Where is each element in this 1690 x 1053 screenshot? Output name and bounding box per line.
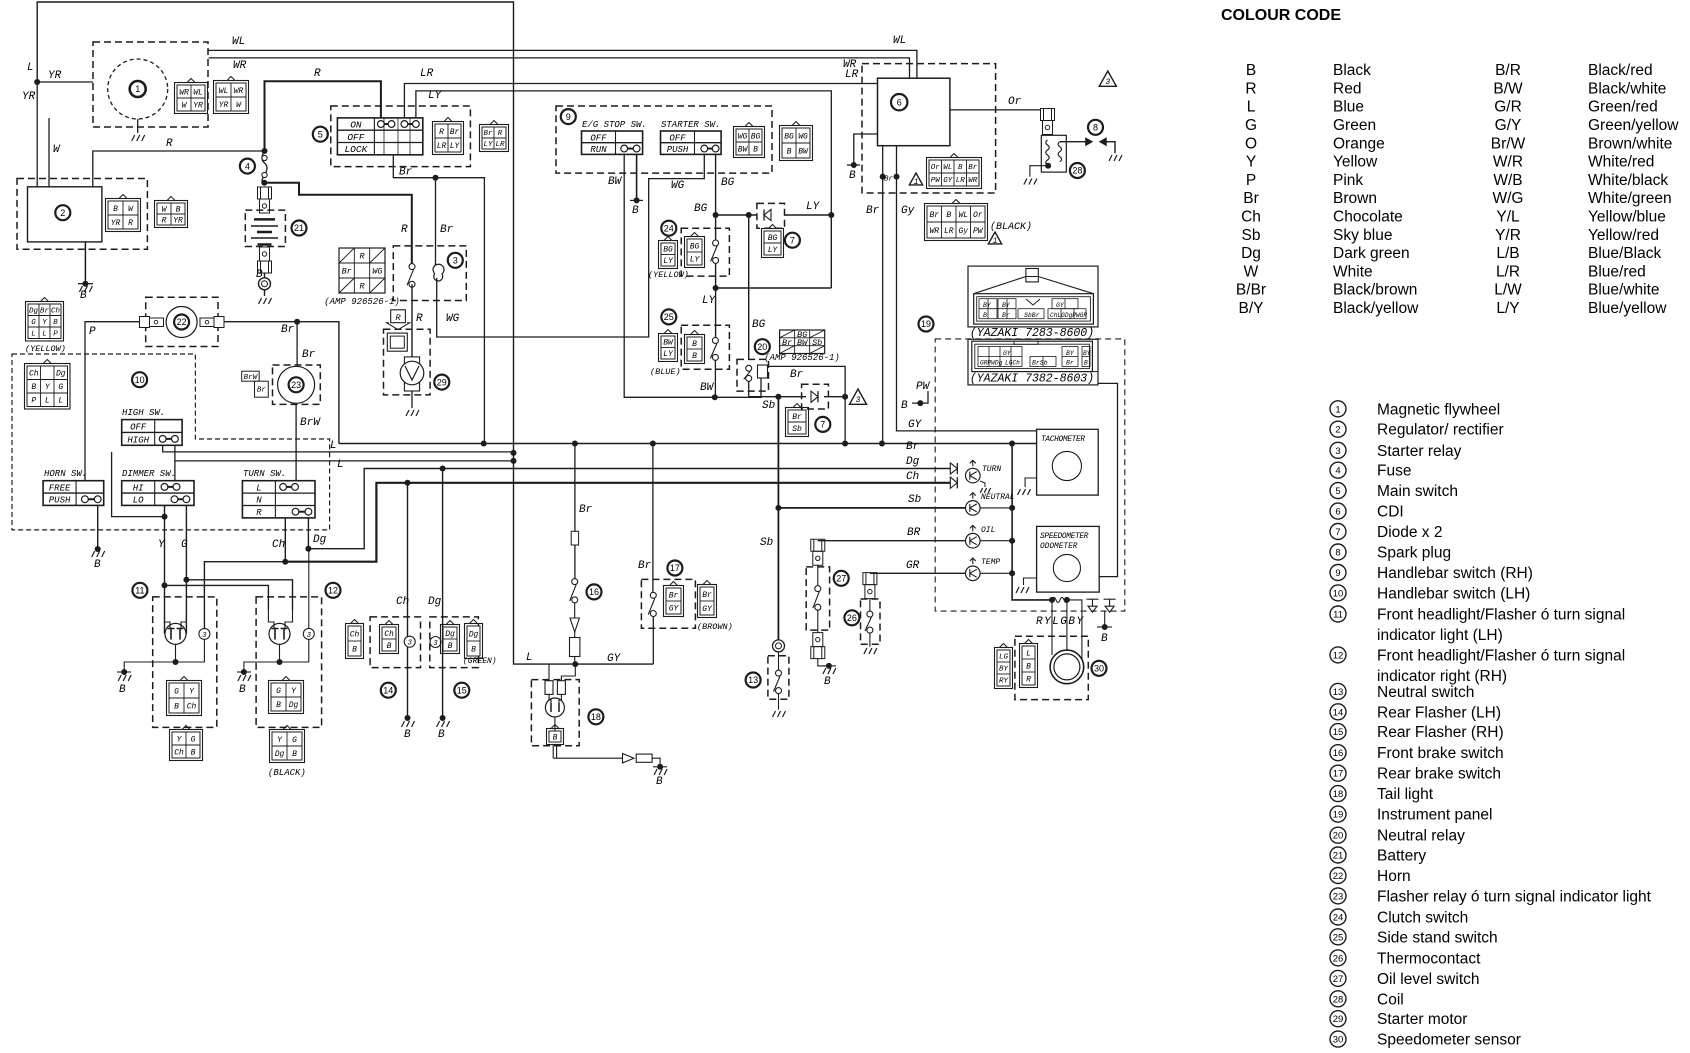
svg-text:Front brake switch: Front brake switch xyxy=(1377,745,1504,762)
svg-text:G: G xyxy=(174,687,179,696)
svg-text:L: L xyxy=(1247,99,1256,116)
svg-text:29: 29 xyxy=(437,377,447,387)
battery 21 xyxy=(258,187,272,199)
svg-text:Green: Green xyxy=(1333,117,1376,134)
rear flasher RH connector Dg/B inner xyxy=(441,625,460,654)
svg-text:R: R xyxy=(401,224,408,236)
svg-text:B: B xyxy=(31,383,36,392)
instrument panel 19 dashed box xyxy=(935,339,1125,611)
svg-text:L/Y: L/Y xyxy=(1496,300,1519,317)
svg-text:B: B xyxy=(239,684,246,696)
svg-text:B: B xyxy=(1246,62,1256,79)
svg-text:(YAZAKI 7382-8603): (YAZAKI 7382-8603) xyxy=(970,373,1094,386)
sensor outer connector LG/BY/RY xyxy=(995,648,1013,689)
svg-text:GY: GY xyxy=(908,419,923,431)
svg-text:Neutral switch: Neutral switch xyxy=(1377,684,1474,701)
svg-text:3: 3 xyxy=(433,640,437,648)
svg-text:Ch: Ch xyxy=(51,307,61,315)
ignition coil 28 xyxy=(1041,109,1055,121)
svg-text:Main switch: Main switch xyxy=(1377,483,1458,500)
svg-text:Speedometer sensor: Speedometer sensor xyxy=(1377,1032,1521,1049)
svg-text:Battery: Battery xyxy=(1377,848,1426,865)
svg-text:L: L xyxy=(330,440,337,452)
svg-text:DIMMER SW.: DIMMER SW. xyxy=(122,469,176,479)
svg-text:10: 10 xyxy=(1333,588,1344,599)
svg-text:Ch: Ch xyxy=(187,702,197,711)
small BrW step connector at flasher relay xyxy=(242,371,260,381)
svg-text:3: 3 xyxy=(408,640,412,648)
svg-text:17: 17 xyxy=(670,563,680,573)
svg-text:2: 2 xyxy=(1335,425,1340,436)
headlight LH bulb feed wires xyxy=(165,617,171,628)
spark plug 8 xyxy=(1060,141,1089,143)
handlebar RH connector WG BG / BW B xyxy=(734,127,765,158)
svg-text:L: L xyxy=(526,652,533,664)
svg-text:CDI: CDI xyxy=(1377,504,1404,521)
rear flasher LH 14 xyxy=(370,617,420,668)
svg-text:5: 5 xyxy=(1335,486,1340,497)
svg-text:10: 10 xyxy=(135,375,145,385)
wire WG starter switch to starter relay coil xyxy=(437,154,705,337)
side stand connector BW/LY xyxy=(659,334,678,362)
main switch connector Br R / LY LR xyxy=(480,125,509,152)
fuse 4 xyxy=(262,151,267,182)
svg-text:17: 17 xyxy=(1333,769,1344,780)
svg-text:Dg: Dg xyxy=(275,750,285,759)
svg-text:WR: WR xyxy=(929,227,939,236)
tachometer ground xyxy=(1025,478,1037,487)
svg-text:11: 11 xyxy=(135,586,144,596)
svg-text:WG: WG xyxy=(798,132,808,141)
CDI 8-pin connector xyxy=(927,158,982,189)
svg-text:B: B xyxy=(352,645,357,654)
svg-text:Rear Flasher (RH): Rear Flasher (RH) xyxy=(1377,724,1504,741)
svg-text:G: G xyxy=(31,319,36,327)
flywheel ground xyxy=(137,119,139,133)
svg-text:BG: BG xyxy=(751,132,761,141)
handlebar LH connector 3x3 xyxy=(25,364,71,410)
svg-text:WG: WG xyxy=(446,313,460,325)
svg-text:LR: LR xyxy=(495,141,505,149)
svg-text:Rear Flasher (LH): Rear Flasher (LH) xyxy=(1377,704,1501,721)
svg-text:BG: BG xyxy=(721,177,735,189)
svg-text:Clutch switch: Clutch switch xyxy=(1377,910,1468,927)
svg-text:GY: GY xyxy=(943,177,953,185)
svg-text:Br: Br xyxy=(302,349,316,361)
svg-text:Coil: Coil xyxy=(1377,991,1404,1008)
svg-text:Dg: Dg xyxy=(56,370,66,379)
svg-text:LY: LY xyxy=(483,141,493,149)
svg-text:W/G: W/G xyxy=(1493,190,1524,207)
svg-text:BG: BG xyxy=(690,242,700,251)
wire Ch branch to rear flasher LH xyxy=(407,483,409,718)
neutral relay 20 xyxy=(737,359,769,391)
rear flasher LH connector Ch/B outer xyxy=(346,624,364,659)
svg-text:B: B xyxy=(632,205,639,217)
svg-text:Neutral relay: Neutral relay xyxy=(1377,828,1465,845)
svg-text:Br: Br xyxy=(702,591,712,600)
svg-text:BrW: BrW xyxy=(244,374,259,382)
AMP 926526-1 connector near battery xyxy=(339,248,385,293)
svg-text:Ch: Ch xyxy=(174,748,184,757)
rear flasher RH connector Dg/B outer xyxy=(465,624,483,659)
svg-text:TURN SW.: TURN SW. xyxy=(243,469,286,479)
svg-text:25: 25 xyxy=(1333,932,1344,943)
svg-text:White/green: White/green xyxy=(1588,190,1672,207)
svg-text:Dg: Dg xyxy=(445,630,455,639)
svg-text:Sky blue: Sky blue xyxy=(1333,227,1392,244)
svg-text:White/red: White/red xyxy=(1588,154,1654,171)
svg-text:23: 23 xyxy=(291,380,301,390)
sensor connector L/B/R xyxy=(1020,644,1038,688)
svg-text:3: 3 xyxy=(307,632,311,640)
svg-text:PW: PW xyxy=(916,381,931,393)
svg-text:Blue/white: Blue/white xyxy=(1588,282,1660,299)
svg-text:Sb: Sb xyxy=(792,425,802,434)
svg-text:BW: BW xyxy=(797,338,808,348)
svg-text:20: 20 xyxy=(1333,831,1344,842)
svg-text:20: 20 xyxy=(757,342,767,352)
svg-text:GR: GR xyxy=(906,560,920,572)
svg-text:18: 18 xyxy=(591,712,601,722)
svg-text:BR: BR xyxy=(907,527,921,539)
svg-text:21: 21 xyxy=(1333,851,1344,862)
svg-text:8: 8 xyxy=(1335,548,1340,559)
svg-text:G/R: G/R xyxy=(1494,99,1522,116)
svg-text:WL: WL xyxy=(193,88,203,97)
yellow connector 3x3 top left xyxy=(26,302,64,342)
svg-text:9: 9 xyxy=(1335,568,1340,579)
svg-text:15: 15 xyxy=(1333,727,1344,738)
svg-text:BG: BG xyxy=(694,203,708,215)
svg-text:BW: BW xyxy=(798,147,809,156)
svg-text:Dg: Dg xyxy=(313,534,327,546)
svg-text:6: 6 xyxy=(897,97,902,107)
svg-text:WL: WL xyxy=(943,164,952,172)
svg-text:BG: BG xyxy=(752,319,766,331)
svg-text:B/R: B/R xyxy=(1495,62,1521,79)
svg-text:R: R xyxy=(128,219,133,228)
svg-text:PUSH: PUSH xyxy=(49,496,71,506)
svg-text:Oil level switch: Oil level switch xyxy=(1377,971,1480,988)
regulator connector B W / YR R xyxy=(106,199,141,232)
svg-text:Starter relay: Starter relay xyxy=(1377,443,1462,460)
svg-text:Spark plug: Spark plug xyxy=(1377,545,1451,562)
Br bus horizontal xyxy=(339,443,1037,445)
svg-text:R: R xyxy=(498,130,503,138)
svg-text:B: B xyxy=(983,312,987,319)
wire Br main switch to Br bus xyxy=(393,156,484,444)
battery ground wire xyxy=(264,273,266,296)
svg-text:RY: RY xyxy=(999,678,1009,686)
svg-text:Or: Or xyxy=(931,164,941,172)
svg-text:B: B xyxy=(80,290,87,302)
svg-text:L: L xyxy=(1026,649,1031,658)
svg-text:Black/red: Black/red xyxy=(1588,62,1653,79)
warning triangle 3 at diode 2 xyxy=(849,389,866,404)
svg-text:6: 6 xyxy=(1335,507,1340,518)
handlebar switch LH 10 xyxy=(12,354,330,530)
svg-text:24: 24 xyxy=(664,223,674,233)
svg-text:(BLACK): (BLACK) xyxy=(268,768,306,778)
svg-text:9: 9 xyxy=(566,112,571,122)
svg-text:Ch: Ch xyxy=(272,539,285,551)
svg-text:R: R xyxy=(439,128,444,137)
svg-text:14: 14 xyxy=(383,685,393,695)
svg-text:E/G STOP SW.: E/G STOP SW. xyxy=(582,120,647,130)
svg-text:14: 14 xyxy=(1333,707,1344,718)
svg-text:B: B xyxy=(191,748,196,757)
svg-text:G: G xyxy=(58,383,63,392)
svg-text:27: 27 xyxy=(836,574,846,584)
svg-text:Dg: Dg xyxy=(428,596,442,608)
svg-text:indicator right (RH): indicator right (RH) xyxy=(1377,668,1507,685)
wire BG to neutral relay xyxy=(716,214,757,216)
svg-text:12: 12 xyxy=(1333,650,1344,661)
svg-text:Br: Br xyxy=(884,176,894,184)
svg-text:B: B xyxy=(119,684,126,696)
svg-text:Dg: Dg xyxy=(1241,245,1261,262)
svg-text:26: 26 xyxy=(847,613,857,623)
Sb line to neutral indicator xyxy=(778,507,965,509)
svg-text:Y/R: Y/R xyxy=(1495,227,1521,244)
svg-text:L/B: L/B xyxy=(1496,245,1519,262)
wire Sb neutral relay to diode 2 and neutral switch xyxy=(749,381,779,396)
svg-text:Thermocontact: Thermocontact xyxy=(1377,950,1481,967)
wire W flywheel to regulator xyxy=(48,118,50,187)
wire YR junction down to regulator xyxy=(36,82,38,187)
diode D1 (BG-LY) xyxy=(757,203,785,228)
svg-text:G: G xyxy=(292,736,297,745)
headlight RH lower connector Y G / Dg B xyxy=(270,730,305,763)
svg-text:16: 16 xyxy=(589,587,599,597)
svg-text:Black/brown: Black/brown xyxy=(1333,282,1417,299)
svg-text:7: 7 xyxy=(1335,527,1340,538)
svg-text:WL: WL xyxy=(232,36,245,48)
diode D2 (Sb-Br) xyxy=(802,384,829,409)
svg-text:HI: HI xyxy=(133,483,144,493)
svg-text:B: B xyxy=(471,645,476,654)
svg-text:13: 13 xyxy=(1333,687,1344,698)
svg-text:Y: Y xyxy=(1246,154,1256,171)
svg-text:Br: Br xyxy=(450,128,460,137)
sensor wires R Y L G B Y xyxy=(1051,600,1053,655)
wire GR thermocontact to indicator xyxy=(870,572,966,574)
sensor coil squiggle xyxy=(1052,597,1067,602)
regulator rectifier unit 2 xyxy=(17,179,147,250)
svg-text:PW: PW xyxy=(931,177,942,185)
svg-text:13: 13 xyxy=(748,675,758,685)
svg-text:(BLACK): (BLACK) xyxy=(990,221,1032,233)
svg-text:Dg: Dg xyxy=(289,701,299,710)
svg-text:Sb: Sb xyxy=(1242,227,1261,244)
svg-text:L: L xyxy=(337,459,344,471)
warning triangle 3 top right xyxy=(1099,71,1116,86)
svg-text:YR: YR xyxy=(173,216,183,225)
svg-text:Sb: Sb xyxy=(760,537,773,549)
svg-text:Or: Or xyxy=(973,211,983,220)
svg-text:5: 5 xyxy=(318,129,323,139)
svg-text:NEUTRAL: NEUTRAL xyxy=(981,493,1015,502)
wire Br neutral relay to Br bus xyxy=(769,366,846,443)
svg-text:4: 4 xyxy=(1335,466,1340,477)
svg-text:Ch: Ch xyxy=(384,630,394,639)
svg-text:B/Y: B/Y xyxy=(1239,300,1264,317)
svg-text:LR: LR xyxy=(956,177,966,185)
flasher relay 23 xyxy=(273,365,321,404)
svg-text:Black/white: Black/white xyxy=(1588,80,1666,97)
svg-text:B: B xyxy=(1026,662,1031,671)
svg-text:Sb: Sb xyxy=(908,494,921,506)
svg-text:PUSH: PUSH xyxy=(667,145,689,155)
svg-text:3: 3 xyxy=(202,632,206,640)
svg-text:LY: LY xyxy=(768,246,779,255)
svg-text:Diode x 2: Diode x 2 xyxy=(1377,524,1442,541)
svg-text:Br: Br xyxy=(790,369,804,381)
svg-text:LG: LG xyxy=(999,654,1009,662)
svg-text:Side stand switch: Side stand switch xyxy=(1377,929,1498,946)
turn indicator bulb RH xyxy=(303,628,314,639)
svg-text:Ch: Ch xyxy=(906,471,919,483)
magnetic flywheel unit 1 xyxy=(93,42,208,127)
svg-text:WL: WL xyxy=(958,211,968,220)
diode D2 connector labels xyxy=(786,408,809,437)
svg-text:3: 3 xyxy=(1105,78,1110,87)
svg-text:OFF: OFF xyxy=(130,422,147,432)
svg-text:Br: Br xyxy=(1066,360,1074,367)
svg-text:GY: GY xyxy=(607,653,622,665)
svg-text:30: 30 xyxy=(1094,664,1104,674)
svg-text:LY: LY xyxy=(690,255,701,264)
thermocontact 26 xyxy=(863,573,877,585)
R link connector xyxy=(391,310,406,323)
svg-text:TEMP: TEMP xyxy=(981,558,1000,567)
svg-text:YR: YR xyxy=(22,91,36,103)
svg-text:30: 30 xyxy=(1333,1035,1344,1046)
clutch switch 24 xyxy=(681,228,729,276)
svg-text:Black/yellow: Black/yellow xyxy=(1333,300,1419,317)
svg-text:L: L xyxy=(58,397,63,406)
svg-text:BW: BW xyxy=(663,339,674,348)
svg-text:Blue/yellow: Blue/yellow xyxy=(1588,300,1667,317)
regulator connector W B / R YR xyxy=(155,201,188,228)
svg-text:Br: Br xyxy=(579,504,593,516)
svg-text:Dark green: Dark green xyxy=(1333,245,1410,262)
starter motor ground xyxy=(411,391,413,408)
svg-text:WR: WR xyxy=(179,88,189,97)
svg-text:BY: BY xyxy=(983,302,992,309)
svg-text:RUN: RUN xyxy=(590,145,607,155)
svg-text:27: 27 xyxy=(1333,974,1344,985)
svg-text:Br: Br xyxy=(40,307,50,315)
rear brake switch 17 xyxy=(652,444,654,593)
svg-text:GY: GY xyxy=(1056,302,1065,309)
svg-text:GRPWDg: GRPWDg xyxy=(980,360,1003,367)
svg-text:B: B xyxy=(824,676,831,688)
svg-text:RYLGBY: RYLGBY xyxy=(1036,616,1085,628)
svg-text:3: 3 xyxy=(1335,446,1340,457)
svg-text:Front headlight/Flasher ó turn: Front headlight/Flasher ó turn signal xyxy=(1377,607,1625,624)
svg-text:G: G xyxy=(1245,117,1257,134)
rear flasher RH bulb xyxy=(430,637,441,648)
svg-text:B/Br: B/Br xyxy=(1236,282,1266,299)
wire Br horn to flasher relay and Br bus xyxy=(218,322,339,444)
svg-text:Yellow/blue: Yellow/blue xyxy=(1588,209,1666,226)
svg-text:3: 3 xyxy=(856,396,861,405)
svg-text:P: P xyxy=(31,397,36,406)
svg-text:OIL: OIL xyxy=(981,526,995,535)
legend list xyxy=(1330,401,1346,417)
rear flasher LH connector Ch/B inner xyxy=(380,625,399,654)
svg-text:LY: LY xyxy=(450,142,461,151)
svg-text:Handlebar switch (RH): Handlebar switch (RH) xyxy=(1377,565,1533,582)
main switch 5 xyxy=(331,106,471,167)
svg-text:WG: WG xyxy=(738,132,748,141)
svg-text:Br: Br xyxy=(669,591,679,600)
clutch switch connector BG/LY inner xyxy=(685,237,705,268)
side stand connector B/B xyxy=(685,335,705,364)
svg-text:Fuse: Fuse xyxy=(1377,463,1411,480)
svg-text:Br: Br xyxy=(906,441,920,453)
flywheel connector WR WL / W YR xyxy=(175,83,208,114)
wire LY main switch to diode junction xyxy=(416,91,831,215)
svg-text:1: 1 xyxy=(135,84,140,94)
svg-text:B/W: B/W xyxy=(1493,80,1523,97)
svg-text:7: 7 xyxy=(790,235,795,245)
svg-text:25: 25 xyxy=(664,312,674,322)
svg-text:(BLUE): (BLUE) xyxy=(650,367,681,377)
svg-text:Br: Br xyxy=(866,205,880,217)
svg-text:Gy: Gy xyxy=(958,227,968,236)
svg-text:Br: Br xyxy=(782,338,792,348)
starter relay output R to motor xyxy=(411,284,413,357)
headlight LH common ground xyxy=(176,639,205,662)
wire BG starter switch to diode and clutch switch xyxy=(715,154,717,243)
svg-text:White/black: White/black xyxy=(1588,172,1668,189)
svg-text:G: G xyxy=(276,687,281,696)
svg-text:Br/W: Br/W xyxy=(1491,135,1526,152)
wire Br junction down to starter relay coil xyxy=(435,178,437,266)
svg-text:Br: Br xyxy=(1002,312,1010,319)
svg-text:GY: GY xyxy=(1003,350,1012,357)
svg-text:B: B xyxy=(404,729,411,741)
oil level switch 27 xyxy=(811,539,825,551)
svg-text:P: P xyxy=(89,326,96,338)
tail light ground lead xyxy=(553,745,556,759)
svg-text:16: 16 xyxy=(1333,748,1344,759)
tachometer xyxy=(1037,429,1099,495)
svg-text:29: 29 xyxy=(1333,1014,1344,1025)
svg-text:B: B xyxy=(448,642,453,651)
side stand switch 25 xyxy=(681,325,729,369)
svg-text:SPEEDOMETER: SPEEDOMETER xyxy=(1040,533,1089,541)
svg-text:B: B xyxy=(113,205,118,214)
clutch switch connector BG/LY outer xyxy=(659,241,678,269)
svg-text:R: R xyxy=(359,282,365,292)
svg-text:(YAZAKI 7283-8600): (YAZAKI 7283-8600) xyxy=(970,327,1094,340)
AMP 926526-1 connector near neutral relay xyxy=(780,330,825,354)
neutral switch 13 xyxy=(773,640,785,652)
diode D1 connector labels xyxy=(762,229,784,258)
main switch connector R Br / LR LY xyxy=(433,122,464,155)
svg-text:Black: Black xyxy=(1333,62,1371,79)
svg-text:R: R xyxy=(314,68,321,80)
svg-text:22: 22 xyxy=(1333,871,1344,882)
svg-text:R: R xyxy=(359,252,365,262)
svg-text:Tail light: Tail light xyxy=(1377,786,1434,803)
svg-text:indicator light (LH): indicator light (LH) xyxy=(1377,627,1503,644)
svg-text:Br: Br xyxy=(483,130,493,138)
